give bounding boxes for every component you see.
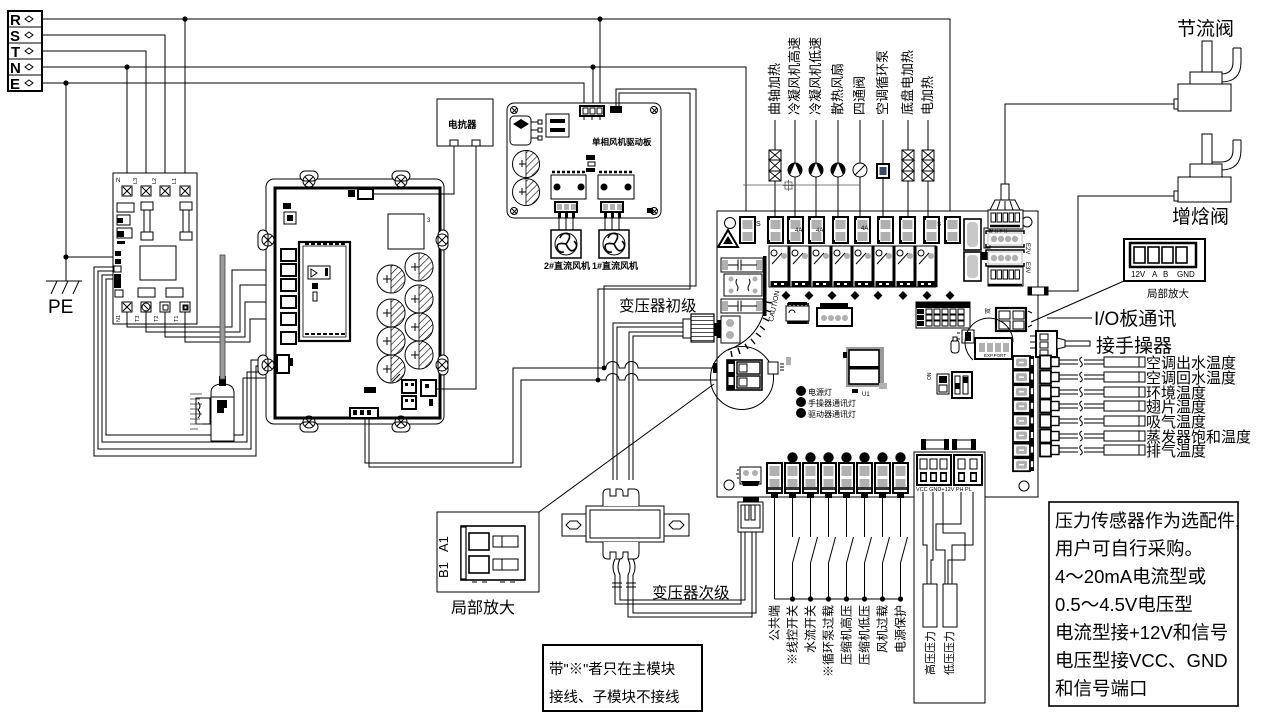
driver small component TL <box>283 203 296 224</box>
main board left cap box 1 <box>721 258 763 272</box>
svg-text:曲轴加热: 曲轴加热 <box>767 63 782 115</box>
terminal T1 (filter bottom) <box>180 302 190 312</box>
throttle valve <box>1174 41 1241 111</box>
connector load 电加热 <box>923 216 939 244</box>
input 风机过载 <box>875 452 890 653</box>
svg-text:L3: L3 <box>133 178 139 184</box>
main board left relay box <box>724 274 762 296</box>
I/O connector <box>985 308 1032 331</box>
fan board inductor <box>586 155 595 172</box>
svg-text:E: E <box>10 76 20 93</box>
svg-text:E2V: E2V <box>1024 243 1030 254</box>
wire CAN pair A <box>604 89 696 368</box>
capacitor C1 <box>377 265 405 293</box>
svg-text:局部放大: 局部放大 <box>1147 287 1189 300</box>
hand controller connector EXP <box>965 318 1013 360</box>
wires fan1 <box>605 218 619 230</box>
input 压缩机低压 <box>857 452 873 665</box>
svg-text:S: S <box>937 222 941 228</box>
input 公共端 <box>767 463 782 641</box>
CAUTION arc <box>728 290 782 357</box>
svg-text:压力传感器作为选配件,: 压力传感器作为选配件, <box>1055 511 1240 531</box>
svg-text:高压压力: 高压压力 <box>923 631 937 675</box>
svg-text:风机过载: 风机过载 <box>876 605 890 653</box>
connector load 冷凝风机高速 <box>787 216 803 244</box>
capacitor C4 <box>405 285 433 313</box>
svg-text:4A: 4A <box>795 228 802 234</box>
wires transformer primary <box>613 323 683 480</box>
svg-text:※循环泵过载: ※循环泵过载 <box>822 605 836 677</box>
driver left connector 4 <box>281 296 296 308</box>
driver board outline <box>266 179 444 424</box>
wire filter T1 to driver <box>185 312 281 342</box>
connector E3V <box>986 250 1030 273</box>
temp sensor 空调回水温度 <box>1040 370 1236 387</box>
transformer secondary plug <box>738 497 763 532</box>
fuse F2 <box>180 202 192 240</box>
wire filter T3 to driver <box>146 285 281 332</box>
connector load 空调循环泵 <box>877 216 893 244</box>
driver IGBT module <box>299 242 350 341</box>
svg-text:接手操器: 接手操器 <box>1096 335 1172 357</box>
label I/O comm <box>1047 308 1176 330</box>
svg-text:A: A <box>1152 270 1158 279</box>
temp sensor 翅片温度 <box>1040 399 1206 416</box>
svg-text:EXP.PORT: EXP.PORT <box>984 353 1006 358</box>
svg-text:压缩机低压: 压缩机低压 <box>857 605 872 665</box>
svg-text:排气温度: 排气温度 <box>1146 443 1206 460</box>
svg-text:T2: T2 <box>154 316 160 322</box>
note box <box>543 645 702 711</box>
relay K2 <box>790 246 812 287</box>
svg-text:4A: 4A <box>861 226 868 232</box>
driver heatsink <box>388 214 424 249</box>
fan motor 2 <box>551 230 581 258</box>
load 电加热 <box>920 76 935 217</box>
capacitor C7 <box>377 355 405 383</box>
driver top connector <box>348 189 373 199</box>
connector amp marks <box>795 222 941 234</box>
svg-text:节流阀: 节流阀 <box>1177 18 1234 40</box>
temp sensor 蒸发器饱和温度 <box>1040 429 1251 446</box>
filter small pads <box>138 288 183 297</box>
fan board cap block <box>546 114 569 137</box>
reactor <box>437 99 493 146</box>
magnifier diagonal 12V <box>1031 281 1124 322</box>
load 四通阀 <box>852 76 867 217</box>
fan board bulk cap 1 <box>513 151 540 178</box>
load 冷凝风机低速 <box>808 37 823 217</box>
relay K5 <box>853 246 875 287</box>
load 冷凝风机高速 <box>787 37 802 217</box>
driver bottom-right connectors <box>392 374 436 409</box>
driver bottom-center connector <box>350 408 378 418</box>
wire driver to reactor L pin <box>373 146 454 194</box>
fuse F増 <box>1028 287 1048 295</box>
fan relay module 2 <box>551 172 586 199</box>
svg-text:B: B <box>1163 270 1168 279</box>
main board power entry connector <box>717 316 740 343</box>
input ※线控开关 <box>785 452 800 665</box>
svg-text:VCC GND+12V PH PL: VCC GND+12V PH PL <box>916 487 972 493</box>
relay K6 <box>874 246 896 287</box>
svg-text:局部放大: 局部放大 <box>451 599 515 617</box>
driver bottom-left connector <box>277 355 293 373</box>
load 曲轴加热 <box>767 63 782 217</box>
capacitor C3 <box>377 299 405 327</box>
fan motor 1 <box>599 230 629 258</box>
svg-text:电源灯: 电源灯 <box>808 387 832 397</box>
black bar <box>763 256 767 316</box>
relay K4 <box>832 246 854 287</box>
wires transformer secondary <box>612 532 756 617</box>
wire CAN pair B <box>598 93 690 380</box>
svg-text:R: R <box>10 12 21 29</box>
wire N line <box>42 64 746 217</box>
driver left connector 6 <box>281 332 296 344</box>
svg-text:双: 双 <box>985 308 992 314</box>
input 压缩机高压 <box>839 452 855 665</box>
terminal T3 (filter bottom) <box>141 302 151 312</box>
filter board <box>113 173 197 324</box>
svg-text:电压型接VCC、GND: 电压型接VCC、GND <box>1055 650 1228 671</box>
fan terminal block 2 <box>555 202 577 218</box>
driver screw ears <box>258 171 448 432</box>
magnifier diagonal A1B1 <box>539 384 714 512</box>
svg-text:压缩机高压: 压缩机高压 <box>839 605 854 665</box>
svg-text:冷凝风机低速: 冷凝风机低速 <box>808 37 823 115</box>
svg-text:U1: U1 <box>862 392 870 398</box>
fan relay module 1 <box>598 172 634 199</box>
svg-text:电加热: 电加热 <box>920 76 935 115</box>
pressure wires <box>923 492 973 584</box>
annotation tick line <box>743 180 860 191</box>
svg-text:1#直流风机: 1#直流风机 <box>592 260 638 271</box>
svg-text:接线、子模块不接线: 接线、子模块不接线 <box>549 689 680 706</box>
svg-text:ON: ON <box>927 372 933 380</box>
terminal L1 (filter top) <box>180 186 190 196</box>
svg-text:冷凝风机高速: 冷凝风机高速 <box>787 37 802 115</box>
connector load 四通阀 <box>854 216 870 244</box>
filter terminal labels <box>116 178 180 322</box>
svg-text:S: S <box>10 28 20 45</box>
main board CAN connector A1B1 <box>727 360 762 390</box>
svg-text:散热风扇: 散热风扇 <box>830 63 845 115</box>
zoom box 12V A B GND <box>1124 239 1205 281</box>
wire to throttle valve <box>1005 104 1176 184</box>
svg-text:低压压力: 低压压力 <box>943 631 956 675</box>
wire reactor R pin to driver <box>436 146 476 389</box>
left edge small bits <box>713 357 791 373</box>
connector load 底盘电加热 <box>899 216 915 244</box>
warning triangle <box>718 230 738 247</box>
aux plug right of CAN <box>768 362 784 374</box>
svg-text:GND: GND <box>1177 270 1195 279</box>
svg-text:0.5～4.5V电压型: 0.5～4.5V电压型 <box>1055 594 1193 615</box>
input connector label strip <box>768 487 907 490</box>
connector load 曲轴加热 <box>767 216 783 244</box>
fuse FH <box>921 439 949 450</box>
svg-text:4～20mA电流型或: 4～20mA电流型或 <box>1055 566 1206 587</box>
svg-text:用户可自行采购。: 用户可自行采购。 <box>1055 538 1203 559</box>
svg-text:空调循环泵: 空调循环泵 <box>875 50 890 115</box>
terminal block RSTNE <box>8 11 42 93</box>
terminal L3 (filter top) <box>141 186 151 196</box>
transformer primary plug <box>683 314 718 342</box>
driver PBD mark <box>364 387 376 393</box>
wire bundle filter to driver board <box>94 267 277 456</box>
svg-text:四通阀: 四通阀 <box>852 76 867 115</box>
svg-text:4A: 4A <box>816 228 823 234</box>
relay output dots <box>782 291 955 300</box>
capacitor C6 <box>405 313 433 341</box>
compressor terminal cylinder <box>211 376 234 441</box>
ground PE <box>46 281 82 318</box>
svg-text:L2: L2 <box>152 178 158 184</box>
svg-text:带"※"者只在主模块: 带"※"者只在主模块 <box>549 661 676 678</box>
driver left connector 5 <box>281 313 296 325</box>
wire E line <box>42 80 584 281</box>
svg-text:电流型接+12V和信号: 电流型接+12V和信号 <box>1055 622 1228 643</box>
svg-text:S: S <box>756 221 761 228</box>
gray cable to compressor <box>220 255 225 379</box>
transformer body <box>562 489 689 559</box>
svg-text:手操器通讯灯: 手操器通讯灯 <box>808 398 856 408</box>
driver left connector 3 <box>281 279 296 291</box>
IC U2 <box>786 302 809 324</box>
svg-text:驱动器通讯灯: 驱动器通讯灯 <box>808 409 856 419</box>
pressure enclosure <box>914 452 985 703</box>
load 底盘电加热 <box>900 50 915 217</box>
stepper plug EEV <box>990 184 1020 210</box>
connector load R输入 <box>944 216 960 244</box>
svg-text:T3: T3 <box>135 316 141 322</box>
temp sensor 吸气温度 <box>1040 414 1206 431</box>
wire CAN driver to main A1 <box>365 362 766 464</box>
input ※循环泵过载 <box>821 452 836 677</box>
filter left components <box>114 203 134 297</box>
wire R line <box>42 16 950 217</box>
svg-text:A1: A1 <box>436 536 451 552</box>
load 散热风扇 <box>830 63 845 217</box>
temp connector column <box>1013 356 1034 471</box>
capacitor C2 <box>405 253 433 281</box>
temp sensor 空调出水温度 <box>1040 355 1236 372</box>
note textbox pressure <box>1049 502 1240 706</box>
temp sensor 排气温度 <box>1040 443 1206 460</box>
5pin connector E1 <box>988 210 1023 235</box>
fan terminal block 1 <box>601 202 623 218</box>
connector E2V <box>986 231 1030 254</box>
fan board bulk cap 2 <box>513 179 540 206</box>
fan board 3pin power connector <box>580 106 604 120</box>
connector J5 <box>817 303 852 326</box>
svg-text:L1: L1 <box>172 178 178 184</box>
driver left connector 2 <box>281 264 296 276</box>
load 空调循环泵 <box>875 50 890 217</box>
svg-text:增焓阀: 增焓阀 <box>1172 206 1229 228</box>
svg-text:变压器初级: 变压器初级 <box>619 297 697 315</box>
wire filter N1 to driver <box>127 270 281 327</box>
magnifier circle A1B1 <box>711 347 774 410</box>
input 水流开关 <box>803 452 818 653</box>
svg-text:单相风机驱动板: 单相风机驱动板 <box>592 137 652 147</box>
small component x <box>957 330 974 343</box>
wire filter T2 to driver <box>165 302 281 337</box>
capacitor C5 <box>377 327 405 355</box>
fuse F1 <box>141 202 153 240</box>
svg-text:※线控开关: ※线控开关 <box>786 605 800 665</box>
fuse FL <box>952 439 976 450</box>
svg-text:N1: N1 <box>116 315 122 322</box>
svg-text:公共端: 公共端 <box>768 605 782 641</box>
fan driver board <box>507 103 661 218</box>
heatsink blocks <box>964 219 990 281</box>
terminal T2 (filter bottom) <box>160 302 170 312</box>
enthalpy valve <box>1174 134 1241 202</box>
svg-text:12V: 12V <box>1131 270 1146 279</box>
input 电源保护 <box>893 452 908 653</box>
zoom box A1B1 <box>436 512 539 592</box>
svg-text:PE: PE <box>48 297 73 318</box>
svg-text:变压器次级: 变压器次级 <box>652 584 730 602</box>
hand controller plug <box>1030 331 1090 357</box>
svg-text:T: T <box>11 44 20 61</box>
contactor scribble <box>190 394 218 429</box>
wire CAN driver to main B1 <box>369 374 764 468</box>
svg-text:电源保护: 电源保护 <box>894 605 908 653</box>
connector load 冷凝风机低速 <box>808 216 824 244</box>
5pin connector E2 <box>988 267 1023 286</box>
temp sensor 环境温度 <box>1040 384 1206 402</box>
relay K8 <box>916 246 938 287</box>
MCU U1 <box>843 347 887 398</box>
small cap <box>951 337 959 353</box>
common bus <box>775 598 901 600</box>
svg-text:T1: T1 <box>174 316 180 322</box>
main board mounting holes <box>724 217 1032 491</box>
terminal N1 (filter bottom) <box>122 302 132 312</box>
jumper table <box>916 302 970 328</box>
main board left cap box 2 <box>721 299 763 313</box>
svg-text:2#直流风机: 2#直流风机 <box>544 260 590 271</box>
svg-text:N: N <box>116 178 120 184</box>
terminal N (filter top) <box>122 186 132 196</box>
LED power <box>796 386 832 397</box>
relay K7 <box>895 246 917 287</box>
DIP switch <box>927 372 972 398</box>
wires fan2 <box>559 218 573 230</box>
pressure sensor low <box>943 584 957 675</box>
pressure sensor high <box>923 584 937 675</box>
wire to enthalpy valve <box>1048 196 1177 291</box>
fan board CAN connector <box>610 106 622 113</box>
driver left connector 1 <box>281 249 296 261</box>
svg-text:E3V: E3V <box>1024 262 1030 273</box>
filter center relay <box>140 246 176 280</box>
LED driver comm <box>796 408 856 419</box>
connector N input <box>740 217 761 243</box>
wire T line <box>42 51 146 186</box>
terminal L2 (filter top) <box>160 186 170 196</box>
connector load 散热风扇 <box>832 216 848 244</box>
fan board rectifier <box>510 116 542 145</box>
main control board outline <box>717 211 1038 497</box>
LED master comm <box>796 397 856 408</box>
svg-text:电抗器: 电抗器 <box>448 119 477 131</box>
driver board screws <box>262 175 448 428</box>
svg-text:底盘电加热: 底盘电加热 <box>900 50 915 115</box>
capacitor C8 <box>405 341 433 369</box>
svg-text:I/O板通讯: I/O板通讯 <box>1094 308 1176 330</box>
relay K1 <box>769 246 791 287</box>
relay K3 <box>811 246 833 287</box>
svg-text:和信号端口: 和信号端口 <box>1055 678 1148 699</box>
svg-text:水流开关: 水流开关 <box>804 605 818 653</box>
wire S line <box>42 35 165 186</box>
svg-text:B1: B1 <box>436 562 451 578</box>
main board bottom-left component <box>736 467 761 486</box>
svg-text:N: N <box>10 60 21 77</box>
